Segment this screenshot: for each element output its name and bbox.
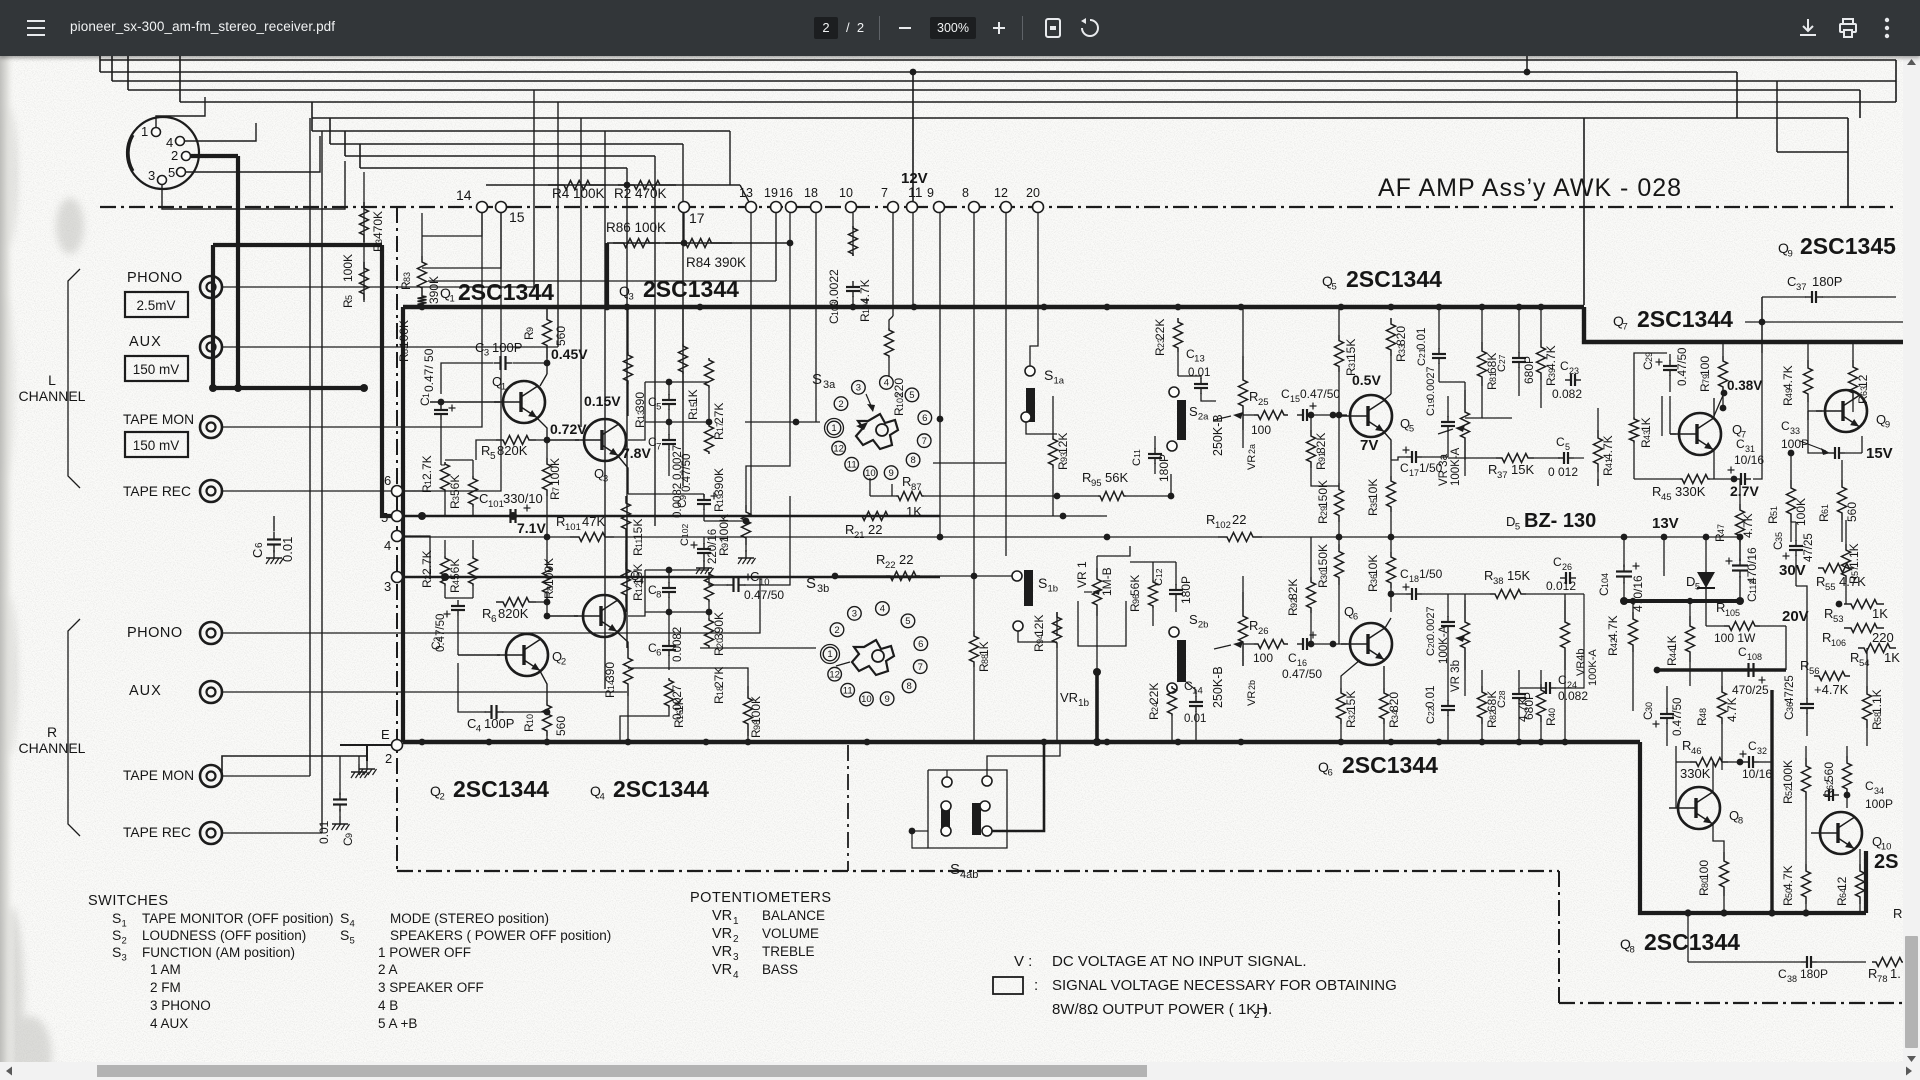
wire E thick — [340, 744, 392, 746]
box feedback frame — [1634, 353, 1667, 417]
wire C2 down — [457, 616, 459, 655]
node bottom rail x628 — [625, 739, 632, 746]
svg-text:38: 38 — [1787, 974, 1797, 984]
svg-text:S: S — [950, 861, 960, 878]
svg-text:2SC1344: 2SC1344 — [1346, 266, 1442, 292]
svg-text:4.7K: 4.7K — [1601, 435, 1615, 460]
svg-text:8: 8 — [1630, 945, 1635, 956]
svg-text:0 012: 0 012 — [1548, 465, 1578, 479]
wire R49 — [1807, 342, 1809, 360]
resistor R63 12 — [1849, 360, 1858, 400]
node bottom rail x1341 — [1338, 739, 1345, 746]
svg-text:C: C — [1781, 419, 1790, 433]
svg-text:150 mV: 150 mV — [133, 438, 180, 453]
wire top-right drop 2 — [1859, 90, 1861, 118]
svg-text:C: C — [1778, 967, 1787, 981]
node nest dot — [1524, 69, 1531, 76]
svg-text:100K: 100K — [1794, 498, 1808, 526]
svg-text:2: 2 — [171, 148, 178, 163]
capacitor C29 0.47/50 — [1669, 360, 1671, 366]
svg-text:10: 10 — [839, 186, 853, 200]
wire 13V drop — [1663, 537, 1665, 576]
node bottom rail x547 — [544, 739, 551, 746]
svg-text:100K: 100K — [548, 458, 562, 486]
resistor R40 4.7K — [1537, 684, 1546, 722]
svg-text:102: 102 — [1215, 520, 1231, 531]
svg-text:14: 14 — [456, 187, 472, 203]
resistor R44 1K — [1686, 616, 1695, 662]
resistor R19 390K — [705, 424, 714, 454]
ground E2 — [358, 764, 360, 772]
svg-text:47/25: 47/25 — [1803, 533, 1815, 562]
svg-text:220: 220 — [892, 378, 906, 398]
node bottom rail x1541 — [1538, 739, 1545, 746]
svg-text:14: 14 — [1192, 686, 1203, 697]
wire R79 — [1722, 342, 1724, 356]
svg-text:4.7K: 4.7K — [1781, 365, 1795, 390]
svg-text:L: L — [48, 372, 56, 388]
svg-text:AF AMP Ass’y AWK - 028: AF AMP Ass’y AWK - 028 — [1378, 174, 1682, 202]
resistor R45 330K — [1680, 475, 1710, 484]
jack AUX L — [200, 336, 222, 358]
wire C8C6 links — [668, 570, 670, 583]
wire R13 — [627, 307, 629, 352]
resistor R81 68K — [1478, 342, 1487, 386]
wire R43 — [1597, 479, 1599, 486]
wire R93 — [1052, 396, 1054, 436]
svg-text:VR4b: VR4b — [1575, 648, 1587, 676]
capacitor C10 0.47/50 — [727, 584, 734, 586]
svg-text:1a: 1a — [1054, 376, 1065, 387]
wire top bus 3 — [112, 80, 1896, 82]
wire C28 — [1518, 670, 1520, 689]
toolbar rotate icon — [1080, 18, 1100, 38]
svg-text:S: S — [340, 927, 349, 943]
svg-text:VR: VR — [1246, 691, 1258, 706]
wire mid bus2 thick — [1657, 668, 1786, 672]
svg-text:R: R — [1893, 906, 1902, 921]
svg-text:4.7K: 4.7K — [1725, 697, 1739, 722]
node 0.45V — [544, 360, 551, 367]
svg-text:C: C — [250, 549, 265, 558]
svg-text:PHONO: PHONO — [127, 270, 183, 286]
net assembly boundary top — [100, 206, 1896, 208]
svg-text:5: 5 — [656, 402, 661, 413]
capacitor C101 330/10 — [504, 515, 511, 517]
terminal 7 — [888, 202, 899, 213]
svg-text:R: R — [1682, 738, 1691, 753]
svg-text:0.0027: 0.0027 — [1425, 606, 1437, 640]
toolbar download icon — [1798, 18, 1818, 38]
resistor R49 4.7K — [1804, 360, 1813, 402]
wire top bus 7 — [312, 130, 730, 132]
terminal E — [392, 740, 403, 751]
svg-text:22: 22 — [868, 522, 882, 537]
svg-text:560: 560 — [1845, 502, 1859, 522]
svg-text:C: C — [1400, 461, 1409, 475]
svg-text:53: 53 — [1833, 614, 1844, 625]
capacitor C12 180P — [1175, 584, 1177, 590]
svg-text:8: 8 — [906, 681, 911, 692]
capacitor C19 0.0027 — [1447, 416, 1449, 422]
wire R62 — [1846, 746, 1848, 756]
svg-text:2SC1344: 2SC1344 — [1637, 306, 1733, 332]
jack PHONO R — [200, 622, 222, 644]
svg-text:2SC1344: 2SC1344 — [1644, 929, 1740, 955]
svg-text:3: 3 — [384, 579, 391, 594]
svg-text:106: 106 — [1831, 638, 1846, 648]
terminal 10 — [846, 202, 857, 213]
wire jackline PHONO L — [222, 286, 534, 288]
toolbar fit icon — [1043, 18, 1063, 38]
svg-text:1/50: 1/50 — [1419, 567, 1443, 581]
wire R94 — [1056, 612, 1058, 636]
capacitor C16 0.47/50 — [1297, 643, 1303, 645]
svg-text::: : — [1034, 977, 1038, 994]
svg-text:AUX: AUX — [129, 683, 162, 699]
wire 12V drop x913 — [912, 72, 914, 201]
svg-text:TAPE MON: TAPE MON — [123, 412, 194, 427]
wire VR1 net — [1096, 556, 1098, 568]
transistor Q3 — [584, 419, 626, 461]
wire vertical drop x558 — [557, 102, 559, 347]
svg-text:470/25: 470/25 — [1732, 683, 1769, 697]
svg-text:33: 33 — [1790, 426, 1800, 436]
terminal 11 12V — [907, 202, 918, 213]
svg-text:R: R — [876, 552, 885, 567]
svg-text:VR: VR — [712, 944, 732, 960]
wire feeder5 thick — [382, 245, 392, 516]
svg-text:32: 32 — [1757, 746, 1767, 756]
wire R98 bot — [747, 736, 749, 742]
svg-text:C: C — [479, 491, 488, 506]
svg-text:10: 10 — [865, 468, 876, 479]
wire R36 — [1390, 537, 1392, 552]
svg-text:5: 5 — [905, 616, 910, 627]
node bottom rail x422 — [419, 739, 426, 746]
wire jackline TAPEREC R — [222, 832, 322, 834]
svg-text:56K: 56K — [448, 559, 462, 580]
svg-text:100K: 100K — [749, 696, 763, 724]
wire C103 — [852, 213, 854, 256]
svg-text:560: 560 — [554, 716, 568, 736]
svg-text:0.47/50: 0.47/50 — [1300, 387, 1340, 401]
wire top-right drop 5 — [1583, 118, 1585, 305]
resistor R20 390K — [705, 572, 714, 602]
resistor R33 820 — [1387, 318, 1396, 356]
svg-text:C: C — [1288, 651, 1297, 665]
switch S1a — [1026, 388, 1035, 422]
svg-text:12K: 12K — [1032, 615, 1046, 636]
wire top bus 2 — [100, 71, 1737, 73]
terminal 13 — [746, 202, 757, 213]
wire Q1 emitter-down — [537, 418, 547, 440]
wire top bus 8 — [330, 143, 683, 145]
wire R101 right — [614, 536, 1107, 538]
resistor R95 56K — [1098, 492, 1126, 501]
wire R105 — [1706, 625, 1724, 627]
svg-text:3: 3 — [603, 474, 608, 485]
svg-text:29: 29 — [1644, 352, 1654, 362]
resistor R96 56K — [1149, 580, 1158, 608]
svg-text:560: 560 — [1822, 762, 1836, 782]
svg-text:12: 12 — [1856, 374, 1870, 388]
svg-text:0.01: 0.01 — [280, 537, 295, 562]
node main rail x1482 — [1479, 304, 1486, 311]
svg-text:4.7K: 4.7K — [1781, 865, 1795, 890]
wire R7 down — [546, 440, 548, 458]
svg-text:22: 22 — [899, 552, 913, 567]
svg-text:C: C — [1736, 437, 1745, 451]
svg-text:R2 470K: R2 470K — [614, 186, 667, 201]
svg-text:0.01: 0.01 — [317, 820, 331, 844]
svg-text:9: 9 — [1788, 249, 1793, 260]
wire R21 net — [745, 515, 1107, 517]
svg-text:12: 12 — [1835, 876, 1849, 890]
wire R102 net — [1107, 536, 1218, 538]
svg-text:VR: VR — [712, 962, 732, 978]
resistor R85 100K — [418, 294, 427, 307]
resistor R84 390K — [665, 239, 732, 248]
svg-text:C: C — [1153, 578, 1165, 586]
connector CN1 body — [127, 117, 199, 189]
svg-text:R: R — [845, 522, 854, 537]
wire VR1b frame — [1078, 601, 1126, 646]
arrow S3b 1 — [836, 662, 850, 666]
wire terminal9 drop — [939, 213, 941, 537]
wire Q9 base — [1807, 411, 1809, 420]
svg-text:820K: 820K — [497, 443, 528, 458]
resistor R25 100 — [1254, 411, 1288, 420]
ground R97 — [745, 550, 747, 558]
resistor R29 150K — [1335, 483, 1344, 522]
resistor R5 820K — [496, 436, 536, 445]
capacitor C33 100P — [1829, 452, 1835, 454]
svg-text:4: 4 — [384, 538, 391, 553]
svg-text:POTENTIOMETERS: POTENTIOMETERS — [690, 890, 832, 906]
resistor R5 100K — [360, 262, 369, 300]
resistor R98 100K — [744, 686, 753, 736]
svg-text:100K-A: 100K-A — [1587, 649, 1599, 686]
svg-text:100P: 100P — [1781, 437, 1809, 451]
svg-text:TREBLE: TREBLE — [762, 944, 815, 959]
wire C24 link — [1520, 687, 1540, 689]
wire R10 — [540, 671, 547, 700]
svg-text:100 1W: 100 1W — [1714, 631, 1756, 645]
svg-text:1K: 1K — [977, 641, 991, 656]
wire input rail left thick — [211, 245, 215, 388]
svg-text:3: 3 — [733, 952, 739, 963]
wire R1R3 to feeder — [444, 492, 446, 516]
svg-text:3: 3 — [629, 292, 634, 303]
toolbar menu icon — [26, 18, 46, 38]
svg-text:1b: 1b — [1078, 698, 1090, 709]
svg-text:55: 55 — [1825, 582, 1836, 593]
svg-text:2: 2 — [440, 792, 445, 803]
svg-text:20: 20 — [1026, 186, 1040, 200]
svg-text:3: 3 — [852, 609, 857, 620]
capacitor C26 0.012 — [1560, 577, 1566, 579]
wire E gnd drop — [366, 745, 368, 761]
node main rail x853 — [850, 304, 857, 311]
svg-text:2: 2 — [561, 657, 566, 668]
svg-text:z: z — [1254, 1009, 1260, 1021]
svg-text:R: R — [1824, 606, 1833, 621]
svg-text:C: C — [1400, 567, 1409, 581]
svg-text:S: S — [812, 371, 822, 388]
svg-text:3a: 3a — [823, 379, 836, 391]
terminal 15 — [496, 202, 507, 213]
svg-text:2.7K: 2.7K — [420, 455, 434, 480]
wire Q1 base — [430, 401, 500, 403]
svg-text:100K: 100K — [717, 514, 731, 542]
svg-text:2.7K: 2.7K — [420, 550, 434, 575]
svg-text:R: R — [1868, 966, 1877, 981]
capacitor C30 0.47/50 — [1666, 708, 1668, 714]
resistor R13 390 — [624, 352, 633, 384]
svg-text:0.47/50: 0.47/50 — [681, 454, 693, 492]
svg-text:VR: VR — [1246, 455, 1258, 470]
wire R40 — [1540, 670, 1542, 684]
svg-text:48: 48 — [1698, 708, 1708, 718]
svg-text:4 B: 4 B — [378, 998, 398, 1013]
capacitor C4 100P — [485, 711, 492, 713]
svg-text:7.1V: 7.1V — [517, 520, 546, 536]
svg-text:102: 102 — [680, 524, 690, 538]
resistor R97 100K — [742, 505, 751, 545]
svg-text:104: 104 — [1600, 573, 1610, 588]
wire R45 net — [1634, 478, 1680, 480]
svg-text:2S: 2S — [1874, 851, 1898, 873]
jack TAPE MON L — [200, 416, 222, 438]
switch S2b — [1169, 627, 1179, 637]
wire R44 — [1689, 601, 1691, 616]
svg-text:1K: 1K — [672, 697, 686, 712]
svg-text:MODE (STEREO position): MODE (STEREO position) — [390, 911, 549, 926]
svg-text:C: C — [1131, 458, 1143, 466]
capacitor C24 0.082 — [1540, 687, 1546, 689]
svg-text:390: 390 — [603, 662, 617, 682]
resistor R105 100 1W — [1724, 622, 1760, 631]
wire R103 — [892, 213, 894, 316]
wire vertical drop x683 — [682, 144, 684, 486]
resistor R42 4.7K — [1629, 612, 1638, 652]
resistor R61 560 — [1838, 480, 1847, 520]
transistor Q5 — [1350, 395, 1392, 437]
svg-text:330/10: 330/10 — [503, 491, 543, 506]
resistor R30 150K — [1335, 544, 1344, 585]
node bottom rail x1044 — [1041, 739, 1048, 746]
wire R92 — [1310, 537, 1312, 577]
svg-text:100P: 100P — [1865, 797, 1893, 811]
wire nest h1 — [1777, 151, 1848, 153]
resistor R39 4.7K — [1537, 340, 1546, 380]
svg-text:18: 18 — [1409, 574, 1419, 584]
svg-text:820: 820 — [1387, 692, 1401, 712]
svg-text:27K: 27K — [712, 403, 726, 424]
svg-text:BALANCE: BALANCE — [762, 908, 825, 923]
wire R38 net — [1448, 593, 1490, 595]
wire C18 net — [1391, 594, 1406, 612]
svg-text:1K: 1K — [686, 389, 700, 404]
wire CN1 pin2 out thick — [191, 154, 238, 158]
resistor R80 100 — [1720, 852, 1729, 896]
node rail c — [360, 384, 368, 392]
svg-text:0.15V: 0.15V — [584, 393, 621, 409]
potentiometer VR3a 100K-A — [1461, 390, 1470, 460]
svg-text:R: R — [1816, 574, 1825, 589]
capacitor C13 0.01 — [1200, 378, 1202, 384]
wire C31 net — [1713, 450, 1715, 479]
scrollbar right arrow — [1906, 1067, 1912, 1076]
wire C15-Q5 — [1314, 414, 1347, 416]
svg-text:4: 4 — [350, 919, 355, 930]
wire vertical drop x310 — [309, 118, 311, 776]
svg-text:1K: 1K — [1872, 606, 1888, 621]
wire top-left drop 4 — [179, 56, 181, 102]
wire vertical drop x655 — [654, 156, 656, 526]
svg-text:C: C — [1496, 364, 1508, 372]
svg-text:12: 12 — [829, 669, 840, 680]
svg-text:11: 11 — [843, 685, 853, 696]
wire vertical drop x730 — [729, 131, 731, 185]
svg-text:4.7K: 4.7K — [1606, 615, 1620, 640]
svg-text:4.7K: 4.7K — [1839, 574, 1866, 589]
wire R29R30 — [1338, 415, 1340, 483]
box signal note — [993, 977, 1023, 994]
node bottom rail x706 — [703, 739, 710, 746]
wire top bus 9 — [345, 155, 655, 157]
capacitor C112 470/16 — [1739, 559, 1741, 566]
node bottom rail x1519 — [1516, 739, 1523, 746]
wire S4ab net3 — [912, 830, 928, 832]
svg-text:16: 16 — [779, 186, 793, 200]
scrollbar up arrow — [1907, 59, 1916, 65]
capacitor C8 0.0082 — [668, 582, 670, 588]
svg-text:10: 10 — [759, 577, 770, 588]
potentiometer VR2b 250K-B — [1239, 592, 1248, 666]
svg-text:VR 1: VR 1 — [1075, 561, 1089, 588]
node bottom rail x489 — [486, 739, 493, 746]
capacitor C14 0.01 — [1195, 696, 1197, 702]
svg-text:7: 7 — [881, 186, 888, 200]
svg-text:37: 37 — [1796, 282, 1807, 293]
wire C1 down — [440, 420, 442, 465]
scrollbar horizontal thumb — [97, 1065, 1147, 1077]
wire C102 — [703, 537, 705, 544]
connector CN1 pin 5 — [177, 168, 186, 177]
capacitor C21 0.01 — [1438, 348, 1440, 354]
node main rail x607 — [604, 304, 611, 311]
svg-text:6: 6 — [254, 542, 265, 548]
wire R9-Q1 — [546, 358, 548, 374]
svg-text:2a: 2a — [1198, 412, 1209, 423]
terminal 6 — [392, 486, 403, 497]
svg-text:390K: 390K — [712, 468, 726, 496]
svg-text:S: S — [112, 944, 121, 960]
resistor R62 560 — [1843, 756, 1852, 796]
wire vertical drop x534 — [533, 90, 535, 287]
resistor R32 15K — [1337, 688, 1346, 724]
capacitor C38 180P — [1801, 961, 1807, 963]
wire R91 — [1310, 415, 1312, 430]
svg-text:21: 21 — [854, 530, 865, 541]
wire R52 — [1805, 746, 1807, 758]
svg-text:35: 35 — [1774, 532, 1784, 542]
svg-text:C: C — [1556, 435, 1565, 449]
node bottom rail x1107 — [1104, 739, 1111, 746]
svg-text:18: 18 — [804, 186, 818, 200]
